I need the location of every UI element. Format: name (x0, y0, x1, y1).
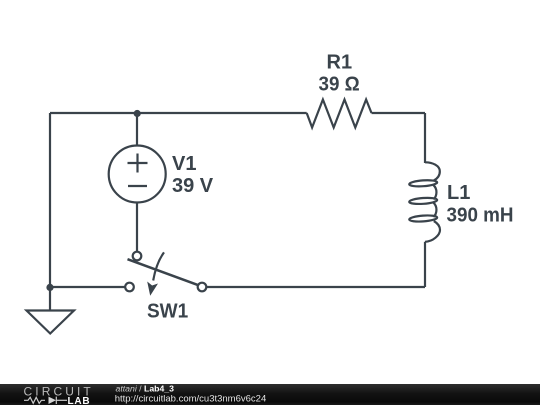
svg-text:L1: L1 (447, 182, 470, 204)
wire (136, 113, 138, 146)
resistor R1 (307, 100, 372, 128)
inductor L1 (409, 162, 440, 242)
footer bar (0, 384, 540, 405)
V1 plus sign (128, 162, 148, 164)
SW1 blade (128, 259, 199, 285)
ground triangle (27, 311, 75, 334)
wire (372, 112, 426, 114)
wire (50, 286, 125, 288)
wire (137, 112, 307, 114)
wire (424, 242, 426, 287)
L1 right side arcs (433, 185, 436, 199)
svg-text:attani / Lab4_3: attani / Lab4_3 (116, 383, 175, 393)
voltage source V1 (109, 146, 166, 203)
svg-text:39 Ω: 39 Ω (319, 74, 360, 96)
SW1 right throw terminal (198, 283, 207, 292)
node A (134, 110, 141, 117)
L1 top lead curve (425, 162, 440, 180)
svg-text:39 V: 39 V (172, 175, 214, 197)
L1 coil loops (409, 179, 437, 187)
switch SW1 (125, 252, 206, 296)
svg-text:LAB: LAB (68, 396, 91, 405)
SW1 left throw terminal (125, 283, 134, 292)
wire (206, 286, 425, 288)
ground stem (49, 287, 51, 311)
V1 minus sign (128, 185, 147, 187)
svg-text:R1: R1 (327, 52, 353, 74)
svg-text:390 mH: 390 mH (447, 205, 514, 227)
wire (424, 113, 426, 163)
wire (49, 113, 51, 287)
svg-text:V1: V1 (172, 153, 196, 175)
wire (50, 112, 137, 114)
ground (27, 287, 75, 334)
L1 bottom lead curve (425, 221, 440, 242)
SW1 actuation arrow (153, 252, 164, 280)
SW1 common terminal (133, 252, 142, 261)
svg-text:http://circuitlab.com/cu3t3nm6: http://circuitlab.com/cu3t3nm6v6c24 (115, 393, 267, 404)
wire (136, 203, 138, 252)
V1 circle body (109, 146, 166, 203)
svg-text:SW1: SW1 (147, 301, 188, 323)
node B (46, 284, 53, 291)
CircuitLab logo resistor-diode symbol (24, 397, 67, 404)
